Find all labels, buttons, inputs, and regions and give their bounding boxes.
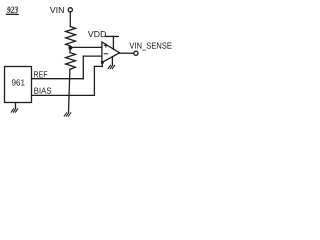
label VIN_SENSE <box>129 42 171 50</box>
terminal VIN <box>68 8 72 12</box>
wire R2 to ground (crosses REF and BIAS lines) <box>69 69 70 112</box>
wire BIAS to op-amp bias pin <box>101 63 103 67</box>
wire op-amp output <box>120 52 134 54</box>
pin label BIAS <box>34 88 51 94</box>
wire node A to op-amp + input <box>70 46 102 48</box>
pin - <box>104 53 107 55</box>
wire VIN to R1 <box>69 12 71 27</box>
ground (divider) <box>64 113 71 116</box>
node bias junction <box>101 61 104 64</box>
terminal VIN_SENSE <box>134 51 138 55</box>
block 961 <box>5 67 32 103</box>
wire REF to op-amp - input <box>83 55 102 57</box>
pin + <box>104 44 107 47</box>
node A (divider tap) <box>68 46 72 50</box>
label 923 <box>7 7 18 13</box>
wire BIAS from 961 <box>32 94 95 96</box>
wire op-amp to ground <box>111 57 113 65</box>
underline of 923 <box>7 13 19 15</box>
wire node A to R2 <box>69 48 71 53</box>
wire 961 to ground <box>15 103 17 109</box>
ground (op-amp) <box>108 65 115 68</box>
wire BIAS up <box>93 66 95 95</box>
label VDD <box>88 31 106 37</box>
label VIN <box>50 7 64 13</box>
resistor R1 <box>66 27 76 46</box>
op-amp U1 <box>102 42 120 63</box>
ground (961) <box>11 109 18 112</box>
power rail VDD <box>106 35 119 37</box>
resistor R2 <box>66 53 76 70</box>
wire BIAS right <box>94 65 102 67</box>
wire REF up <box>82 56 84 79</box>
wire REF from 961 <box>32 78 84 80</box>
pin label REF <box>34 71 47 77</box>
wire VDD to op-amp <box>112 36 114 49</box>
